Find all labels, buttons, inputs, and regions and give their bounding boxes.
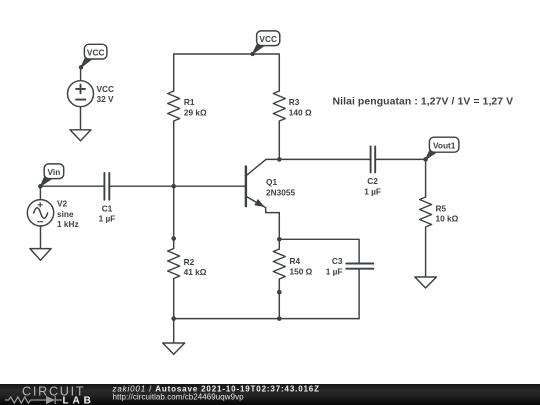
svg-text:C3: C3	[332, 256, 343, 266]
wire	[425, 159, 427, 197]
svg-text:10 kΩ: 10 kΩ	[436, 214, 459, 224]
resistor R3	[273, 91, 285, 124]
svg-text:VCC: VCC	[259, 34, 277, 44]
capacitor C3	[346, 264, 373, 269]
node VCC flag top rail	[250, 52, 254, 56]
wire	[425, 230, 427, 278]
svg-text:1 µF: 1 µF	[99, 214, 116, 224]
svg-text:C2: C2	[367, 176, 378, 186]
wire base rail right	[110, 185, 246, 187]
svg-text:41 kΩ: 41 kΩ	[184, 267, 207, 277]
wire	[173, 124, 175, 187]
wire	[173, 281, 175, 319]
node Vout1	[423, 157, 428, 162]
svg-text:1 kHz: 1 kHz	[57, 219, 79, 229]
ground below ladder	[163, 319, 185, 355]
svg-text:LAB: LAB	[63, 396, 95, 405]
ground below R5	[415, 277, 437, 288]
resistor R4	[273, 249, 285, 282]
V2 sine wave	[34, 208, 48, 219]
svg-text:Vin: Vin	[48, 167, 61, 177]
wire C3 branch bottom	[358, 269, 360, 319]
wire	[80, 67, 82, 80]
source V1 circle	[68, 81, 94, 107]
wire	[80, 107, 82, 130]
wire	[278, 124, 280, 160]
ground below V2	[30, 249, 51, 261]
wire	[278, 282, 280, 319]
footer bar	[0, 384, 540, 405]
net flag Vout1	[426, 137, 459, 159]
V1 plus sign	[76, 85, 85, 94]
capacitor C1	[104, 173, 109, 200]
svg-text:R2: R2	[184, 257, 195, 267]
wire emitter to R4	[278, 239, 280, 249]
svg-text:sine: sine	[57, 209, 74, 219]
resistor R5	[420, 197, 432, 230]
transistor Q1	[246, 159, 279, 239]
node collector	[277, 157, 282, 162]
V1 minus sign	[76, 99, 85, 101]
svg-text:R3: R3	[289, 97, 300, 107]
svg-text:1 µF: 1 µF	[364, 187, 381, 197]
net flag VCC (above V1)	[81, 44, 107, 67]
net flag VCC (top rail)	[252, 31, 279, 54]
node base/ladder	[171, 184, 176, 189]
svg-text:V2: V2	[57, 199, 68, 209]
svg-text:VCC: VCC	[87, 48, 105, 58]
svg-text:1 µF: 1 µF	[326, 267, 343, 277]
svg-text:http://circuitlab.com/cb24469u: http://circuitlab.com/cb24469uqw9vp	[113, 392, 245, 401]
V2 minus	[38, 221, 43, 223]
svg-text:150 Ω: 150 Ω	[290, 267, 313, 277]
wire	[375, 158, 425, 160]
node bottom left	[171, 316, 176, 321]
node R4 bottom	[277, 290, 282, 295]
svg-text:R1: R1	[184, 97, 195, 107]
source V2 circle	[27, 200, 53, 226]
svg-text:VCC: VCC	[97, 84, 115, 94]
V2 plus	[38, 203, 42, 207]
svg-text:140 Ω: 140 Ω	[289, 107, 312, 117]
svg-text:R5: R5	[436, 203, 447, 213]
wire	[40, 226, 42, 249]
svg-text:Nilai penguatan : 1,27V / 1V =: Nilai penguatan : 1,27V / 1V = 1,27 V	[333, 97, 514, 108]
net flag Vin	[40, 164, 63, 186]
logo diode	[46, 396, 55, 404]
svg-text:R4: R4	[290, 256, 301, 266]
wire base rail left	[40, 185, 103, 187]
node emitter	[277, 237, 282, 242]
wire	[39, 186, 41, 199]
node Vin	[38, 184, 43, 189]
ground below V1	[70, 130, 91, 141]
wire collector rail	[279, 158, 369, 160]
svg-text:Q1: Q1	[266, 177, 277, 187]
wire C3 branch top	[279, 239, 359, 262]
wire bottom rail	[174, 318, 359, 320]
svg-text:29 kΩ: 29 kΩ	[184, 107, 207, 117]
top rail wire	[174, 54, 280, 91]
wire	[173, 186, 175, 248]
wire collector	[266, 158, 279, 160]
svg-text:Vout1: Vout1	[433, 141, 456, 151]
node R2 top	[171, 236, 176, 241]
resistor R1	[168, 91, 180, 124]
svg-text:32 V: 32 V	[97, 94, 115, 104]
resistor R2	[168, 249, 180, 282]
node bottom mid	[277, 316, 282, 321]
capacitor C2	[371, 146, 376, 172]
svg-text:2N3055: 2N3055	[266, 187, 295, 197]
logo zigzag resistor	[5, 396, 62, 404]
svg-text:C1: C1	[102, 203, 113, 213]
node VCC flag left	[79, 65, 83, 69]
